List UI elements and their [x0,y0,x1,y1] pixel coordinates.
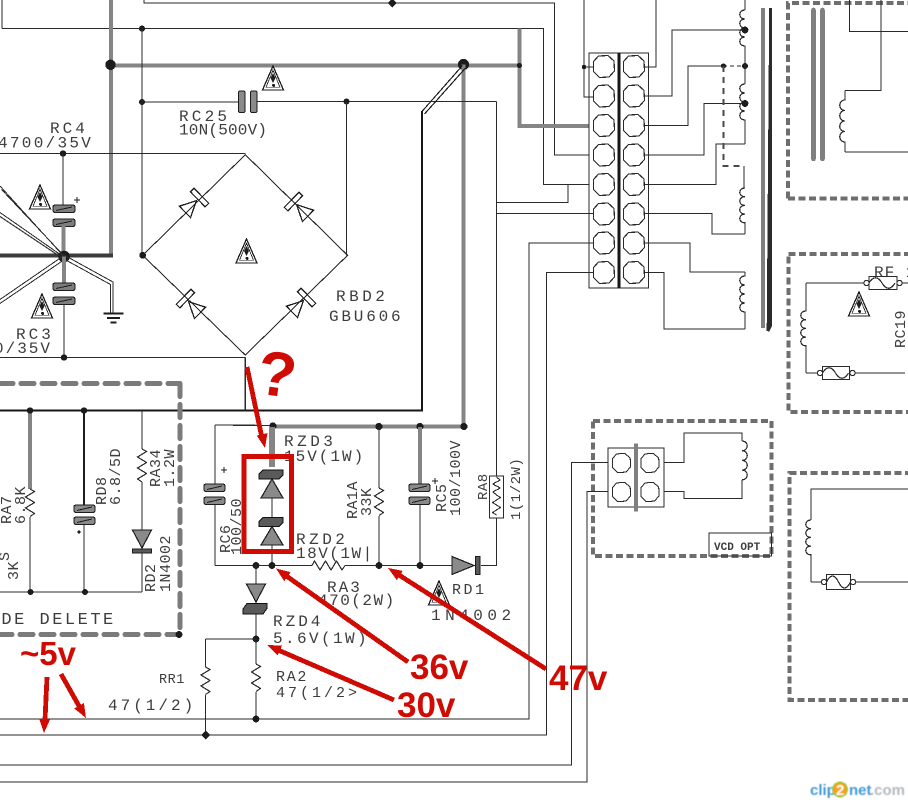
wire RZD4 bottom [255,614,257,639]
junction bus left [269,422,276,429]
resistor RR1 [201,667,210,695]
wire pin R2 to coil1 [645,30,744,96]
connector CN1 pin R1 [624,56,645,78]
capacitor RC5 [409,484,430,505]
box B1 bottom border [788,197,908,201]
transformer T1 winding S2 [740,272,745,329]
svg-text:.com: .com [870,782,905,799]
thick dark horizontal AC wire [0,254,113,258]
thick gray vertical mid [461,65,465,427]
wire pin L2 riser [584,0,593,97]
transformer T1 winding S1 [740,166,745,234]
thick gray horizontal top [109,63,520,67]
junction x347 [344,99,350,105]
connector CN1 pin L2 [594,85,615,107]
node star junction [58,251,70,263]
box B2 dashed border [789,254,908,412]
junction diamond top [388,0,397,8]
wire pin R1 riser [645,0,656,67]
wire RC4 top lead [62,154,64,206]
wire CN2 TL long [0,463,608,766]
svg-text:0/35V: 0/35V [0,340,52,358]
box B3 winding [806,520,811,582]
box B1 dashed border [788,3,908,199]
zener RZD3 [261,479,283,498]
resistor RA7 lead thick [28,411,32,490]
wire bus A to pin5 [2,29,589,185]
resistor RA34 [138,449,147,482]
svg-text:GBU606: GBU606 [329,308,403,326]
connector CN1 pin L6 [594,203,615,225]
transformer T1 winding P2 [740,84,745,144]
fuse B3 [811,575,908,590]
capacitor RC3 [53,283,75,305]
bridge RBD2 diamond [143,155,348,355]
svg-text:15V(1W): 15V(1W) [284,448,365,466]
zener RZD2 [261,527,283,546]
diode bridge bottom-left [176,289,207,320]
svg-text:6.8/5D: 6.8/5D [108,448,125,505]
warning triangle RC3 [32,294,53,318]
red arrow 5v left [39,677,50,733]
junction coil1 tap [742,27,749,34]
connector CN1 pin R6 [624,203,645,225]
connector CN2 pin TL [612,453,630,472]
connector CN1 pin L3 [594,115,615,137]
junction bridge left vertex [139,252,146,259]
svg-text:VCD OPT: VCD OPT [714,542,761,554]
box VCD label box [709,533,772,556]
svg-text:5.6V(1W): 5.6V(1W) [273,630,369,648]
wire MODE bottom rail [0,591,142,593]
svg-text:47(1/2>: 47(1/2> [276,685,360,702]
diode bridge bottom-right [285,288,316,319]
fuse RF1 [806,277,908,290]
connector CN2 pin TR [641,453,659,472]
junction shield left [721,63,726,68]
transformer T1 winding P1 [740,0,745,84]
box VCD winding [742,441,747,480]
wire y153 to bridge top [0,153,245,155]
wire RA2 bottom [255,692,257,719]
red arrow 5v right [61,674,86,718]
warning triangle RD1 [429,581,450,605]
svg-text:RZD4: RZD4 [273,613,323,631]
box MODE dashed bottom [0,632,180,637]
junction bus RA1A [375,423,382,430]
diagonal double wire [422,66,466,115]
connector CN1 pin R2 [624,85,645,107]
box MODE dashed top [0,381,180,386]
resistor RA8 [490,476,504,518]
svg-text:RA2: RA2 [276,669,308,686]
connector CN1 pin L5 [594,174,615,196]
box B1 wire coil bottom [845,151,908,153]
black thick L wire [0,111,422,411]
svg-text:6.8K: 6.8K [13,486,30,524]
svg-text:RA8: RA8 [476,473,492,500]
junction rail RZD4 [253,562,260,569]
junction pin L1 [582,65,586,69]
wire bus B to pin4 [144,0,589,155]
svg-text:100/100V: 100/100V [448,440,465,516]
wire pin R4 to coil2 [645,104,744,156]
connector CN1 body [589,53,649,288]
svg-text:1.2W: 1.2W [162,449,179,487]
red arrow 47v [388,568,546,669]
capacitor RC4 [53,205,75,227]
junction A x142 [139,26,145,32]
junction RD8 top [81,407,87,413]
wire RA7 bottom [29,517,31,592]
wire diagonal D2 [0,213,65,260]
thermistor B2 [806,367,905,380]
svg-text:1(1/2W): 1(1/2W) [509,458,525,520]
resistor RA7 [26,489,35,517]
plus mark RC6 [221,467,227,473]
wire pin L1 stub [584,66,593,68]
wire pin R6 to coil3 bottom [645,214,745,235]
svg-text:47v: 47v [549,659,608,698]
wire RD2 bottom [141,553,143,592]
junction on gray cross [517,63,522,68]
wire RC3 top thick [62,257,66,284]
wire pin R7 to coil4 top [645,243,745,272]
zener chain stub [269,427,275,467]
connector CN2 pin BL [612,482,630,501]
junction bus end [460,423,467,430]
junction x142 y102 [139,99,145,105]
junction RA7 bottom [28,589,34,595]
diode bridge top-right [284,192,315,223]
zener RZD3 bar [259,470,283,479]
connector CN1 pin L8 [594,262,615,284]
resistor RA3 [312,561,345,570]
wire diagonal D4 to ground [63,255,113,313]
transformer T1 core bar 2 [768,8,771,331]
ground [104,314,124,323]
watermark clip2net [810,782,905,799]
diode bridge top-left [178,188,209,219]
red arrow 36v [276,569,408,663]
diode RD2 [133,530,152,553]
wire y102 right of RC25 [257,101,497,103]
junction rail zener [269,562,276,569]
box VCD dashed border [593,421,772,556]
junction RA2 bottom [253,716,260,723]
svg-text:1N4002: 1N4002 [158,535,175,592]
wire top-left corner [1,0,3,29]
warning triangle B2 [849,292,870,316]
wire bridge bottom drop [244,358,246,411]
junction RD8 bottom [82,589,88,595]
junction RC4 top [60,150,66,156]
junction bus RC5 [416,423,423,430]
box B1 wire top right [850,0,908,32]
connector CN2 center bar [634,444,638,512]
svg-text:RR1: RR1 [159,673,185,688]
connector CN1 center line [618,53,621,288]
junction big dot left [105,60,115,70]
junction coil2 tap [742,100,749,107]
red highlight box [244,457,292,552]
wire RA34 bottom [141,482,143,530]
wire vertical x142 [141,29,143,256]
svg-text:MODE DELETE: MODE DELETE [0,611,116,630]
box B1 core bar 1 [811,10,816,159]
capacitor RC6 [204,484,225,505]
svg-text:18V(1W|: 18V(1W| [296,545,374,563]
svg-text:47(1/2): 47(1/2) [108,697,196,715]
wire y357 [0,357,245,359]
warning triangle RC4 [30,185,51,209]
svg-text:33K: 33K [359,487,376,516]
wire RD8 bottom [83,525,85,592]
wire RC3 bottom lead [63,305,65,358]
junction shield right [742,63,748,69]
svg-text:RC19: RC19 [893,310,908,348]
junction RR1 bottom [201,731,210,740]
wire pin L5 branch [497,185,569,203]
connector CN1 pin R4 [624,144,645,166]
wire pin R5 to coil2 bottom [645,144,745,185]
junction RC3 bottom [61,354,67,360]
connector CN1 pin L4 [594,144,615,166]
shield dashed line [724,66,745,166]
svg-text:~5v: ~5v [20,635,77,672]
box B3 wire top [811,489,908,520]
red arrow query [247,367,268,448]
polarity dot RD8 [77,530,80,533]
plus mark RC4 [74,197,80,203]
svg-text:net: net [849,782,872,799]
varistor RD8 [74,505,95,525]
svg-text:2: 2 [836,782,844,799]
wire shield dashed link [723,65,745,67]
zener RZD2 bar [259,518,283,527]
box B3 dashed border [790,473,908,700]
resistor RA34 lead [141,411,143,450]
wire y102 left of RC25 [142,101,239,103]
wire RA8 bottom [481,518,497,566]
wire RC4 bottom thick [61,226,65,257]
wire pin R3 to shield [645,66,723,126]
box MODE dashed right [178,384,183,635]
warning triangle bridge [236,239,257,263]
connector CN1 pin R7 [624,232,645,254]
wire RC6 bottom [214,505,216,566]
diode RD8 lead [83,411,85,506]
capacitor RC5 stub [418,427,422,484]
connector CN1 pin L1 [594,56,615,78]
svg-text:30v: 30v [397,686,456,725]
junction MODE corner [176,631,183,638]
wire zener top thin [215,424,272,427]
wire bridge right vertex up [346,102,348,256]
diode RD1 [452,557,480,575]
wire bottom rail mid [345,565,452,567]
wire bottom rail left [215,565,312,567]
thick gray wire to pin3 [520,29,590,126]
warning triangle RC25 [263,66,284,90]
connector CN1 pin R8 [624,262,645,284]
connector CN1 pin R5 [624,174,645,196]
connector CN1 pin L7 [594,232,615,254]
wire RA2 top [255,639,257,664]
wire pin L8 long [0,273,593,736]
diode RZD4 [243,584,267,614]
wire RR1 bottom [205,695,207,735]
wire zener bottom [271,545,273,566]
svg-text:10N(500V): 10N(500V) [179,122,267,140]
svg-text:S: S [0,551,14,561]
thick gray vertical left [109,0,113,256]
connector CN1 pin R3 [624,115,645,137]
wire RR1 top [206,639,257,667]
wire pin L7 long [0,243,593,719]
red arrow 30v [267,645,394,700]
wire CN2 BR to coil [664,480,742,499]
resistor RA1A [375,488,384,516]
wire RC5 bottom [419,505,421,566]
resistor RA1A branch [378,427,380,489]
wire diagonal D1 [0,186,66,258]
junction big dot right [458,59,469,70]
svg-text:4700/35V: 4700/35V [0,135,93,153]
svg-text:3K: 3K [6,561,23,580]
connector CN2 body [608,448,664,507]
box B1 wire coil top [845,0,881,91]
capacitor RC6 branch [214,425,216,484]
wire diagonal D3 [0,257,65,304]
box B2 winding [801,283,806,373]
svg-text:clip: clip [810,782,836,799]
capacitor RC25 [239,91,258,113]
resistor RA2 [252,664,261,692]
connector CN2 pin BR [641,482,659,501]
wire pin R8 to coil4 bottom [645,273,745,330]
wire pin L6 tap [497,213,594,215]
diode RZD4 lead [255,566,257,585]
junction rail RA1A [376,562,383,569]
junction RZD4 bottom [253,636,260,643]
junction rail RC5 [417,562,424,569]
box B1 winding [840,91,845,153]
svg-text:RBD2: RBD2 [336,288,388,306]
wire RA1A bottom [378,516,380,566]
wire zener mid [271,498,273,517]
wire CN2 BL long [0,492,608,783]
plus mark RC5 [432,478,438,484]
wire vertical RD1 feed [496,102,498,477]
svg-text:36v: 36v [410,648,469,687]
thick gray bus mid [272,424,464,428]
box B1 core bar 2 [820,10,825,159]
transformer T1 core bar 1 [761,8,765,328]
svg-text:RD1: RD1 [452,582,487,599]
wire CN2 TR to coil [664,433,742,463]
junction RA7 top [27,407,33,413]
